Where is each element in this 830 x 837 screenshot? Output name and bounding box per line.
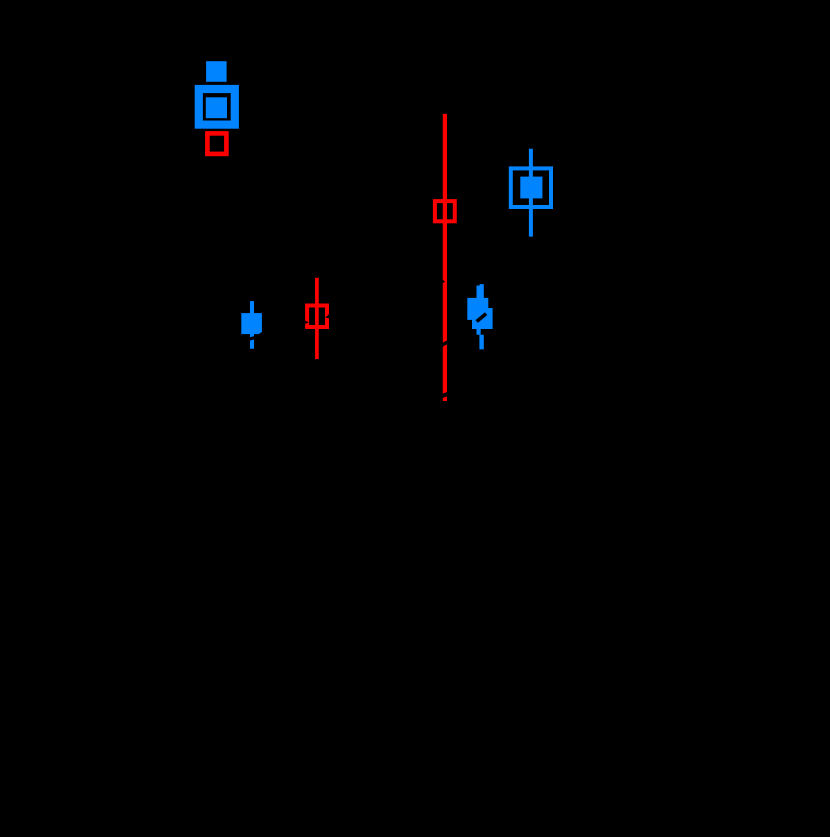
point P3: black slash gap upper xyxy=(440,340,449,347)
point P4: blue open square marker xyxy=(511,168,551,207)
legend marker: blue inner filled square xyxy=(206,97,227,118)
point P2: black notch right xyxy=(325,314,329,319)
point P3: red open square marker xyxy=(435,201,455,221)
point P5: black slash overlay xyxy=(476,312,488,323)
legend marker: blue open square (thick) xyxy=(199,89,235,125)
legend marker: blue filled square xyxy=(206,61,227,82)
point P2: black notch left xyxy=(305,321,309,325)
point P5a: blue filled square marker xyxy=(467,298,488,320)
point P4: blue error bar xyxy=(529,149,533,237)
point P5b: blue error bar bottom part xyxy=(479,335,483,350)
point P4: blue inner filled square xyxy=(520,177,542,199)
point P2: red error bar xyxy=(315,278,319,359)
point P1: black slash gap on error bar xyxy=(249,336,254,341)
legend marker: red open square xyxy=(207,133,226,154)
point P1: black notch on square corner xyxy=(258,332,262,335)
point P3: black notch bite xyxy=(443,280,445,284)
point P2: red open square marker xyxy=(307,306,327,328)
point P5b: blue error bar top part xyxy=(480,284,484,329)
point P5b: blue filled square marker xyxy=(472,308,493,329)
point P3: black slash gap lower xyxy=(440,392,449,399)
point P1: blue error bar xyxy=(250,301,254,349)
point P5a: blue error bar xyxy=(477,286,481,335)
point P1: blue filled square marker xyxy=(241,313,262,334)
point P3: red error bar (tall) xyxy=(443,114,447,401)
